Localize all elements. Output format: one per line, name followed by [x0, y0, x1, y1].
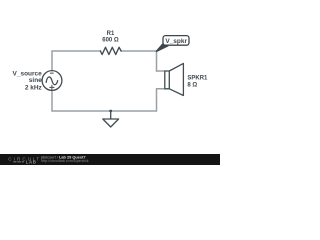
wire: bottom rail — [52, 110, 157, 112]
voltage source V_source (sine) — [42, 71, 62, 91]
svg-text:sine: sine — [29, 77, 42, 84]
svg-text:LAB: LAB — [26, 160, 37, 165]
node flag V_spkr — [157, 36, 190, 52]
wire: speaker top stub — [157, 70, 165, 72]
resistor R1 — [100, 47, 121, 54]
svg-text:R1: R1 — [107, 31, 115, 37]
wire: speaker bottom stub — [157, 88, 165, 90]
svg-text:600 Ω: 600 Ω — [102, 37, 119, 43]
wire: right vertical lower — [156, 89, 158, 111]
wire: top rail right of R1 — [121, 50, 156, 52]
watermark bar — [0, 154, 220, 165]
svg-text:8 Ω: 8 Ω — [187, 82, 197, 88]
CircuitLab logo — [8, 156, 41, 164]
wire: top rail left of R1 — [52, 50, 101, 52]
wire: bottom-left vertical (source bottom to rail) — [51, 90, 53, 111]
wire: top-left vertical (source top to rail) — [51, 51, 53, 71]
svg-text:http://circuitlab.com/c/jamb4k: http://circuitlab.com/c/jamb4k — [41, 159, 89, 163]
junction dot (ground node) — [109, 110, 112, 113]
ground — [103, 111, 119, 127]
speaker SPKR1 — [165, 63, 184, 95]
wire: right vertical upper (node to speaker) — [156, 51, 158, 71]
svg-text:V_spkr: V_spkr — [165, 38, 187, 45]
svg-text:2 kHz: 2 kHz — [25, 84, 43, 91]
svg-text:SPKR1: SPKR1 — [187, 75, 208, 81]
